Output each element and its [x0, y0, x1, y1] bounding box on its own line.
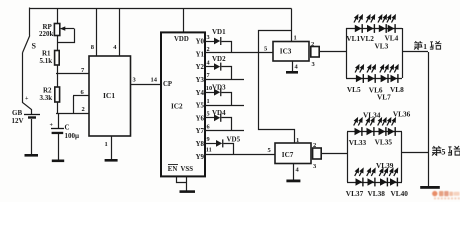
wire group2 output to common rail	[402, 152, 428, 154]
wire capacitor to ground	[58, 134, 60, 160]
svg-text:Y6: Y6	[196, 115, 205, 122]
svg-text:3: 3	[207, 34, 210, 41]
node Y9 pin 11 wire to IC7 pin 5	[205, 146, 275, 154]
svg-text:VL39: VL39	[376, 161, 394, 170]
svg-text:VSS: VSS	[181, 166, 194, 173]
svg-text:1: 1	[105, 141, 108, 148]
svg-text:Y4: Y4	[196, 90, 205, 97]
wire RP to R1	[57, 36, 59, 50]
svg-text:VD5: VD5	[227, 136, 241, 144]
svg-text:VD2: VD2	[212, 55, 226, 63]
battery GB 12V	[12, 96, 41, 125]
svg-text:IC1: IC1	[103, 91, 115, 100]
svg-text:11: 11	[206, 146, 212, 153]
ground (IC7 pin4)	[286, 180, 300, 183]
LED VL7	[380, 65, 389, 83]
watermark logo bottom right	[432, 191, 460, 199]
node Y4 pin 10 stub	[205, 85, 214, 93]
svg-text:VD3: VD3	[212, 84, 226, 92]
wire RP branch from rail	[57, 8, 59, 24]
label route 1 (first channel)	[414, 41, 441, 51]
LED VL2	[366, 15, 375, 33]
svg-text:7: 7	[207, 72, 210, 79]
LED VL37	[355, 169, 364, 187]
svg-text:Y9: Y9	[196, 154, 205, 161]
wire IC2 VDD from rail	[183, 8, 185, 32]
svg-text:VL7: VL7	[377, 92, 391, 101]
label route 5 (fifth channel)	[432, 146, 460, 156]
svg-text:C: C	[65, 124, 70, 132]
svg-text:12V: 12V	[12, 117, 24, 125]
svg-text:GB: GB	[12, 109, 22, 117]
ground (battery)	[25, 154, 39, 157]
wire R1 to node pin7	[57, 65, 59, 87]
svg-text:CP: CP	[163, 81, 172, 88]
wire IC7 pin 4 to ground	[294, 164, 300, 180]
svg-text:6: 6	[207, 123, 210, 130]
svg-text:VL36: VL36	[393, 110, 411, 119]
svg-text:3.3k: 3.3k	[40, 94, 53, 102]
svg-text:Y5: Y5	[196, 103, 205, 110]
svg-text:100µ: 100µ	[65, 132, 80, 140]
labels VL1 VL2 VL3 VL4	[346, 34, 398, 51]
wire IC1 pin 1 to ground	[105, 136, 112, 159]
svg-text:VL35: VL35	[375, 137, 393, 146]
svg-text:EN: EN	[168, 166, 178, 173]
svg-text:+: +	[50, 123, 54, 129]
LED group2 bottom row wire	[347, 182, 402, 184]
ground (IC3 pin4)	[286, 71, 298, 74]
LED VL36	[387, 118, 396, 136]
node Y3 pin 7 wire	[205, 72, 244, 79]
svg-text:VL38: VL38	[368, 189, 386, 198]
LED group1 left rail	[346, 28, 348, 78]
LED VL6	[367, 65, 376, 83]
node Y0 pin 3 stub	[205, 34, 214, 42]
svg-text:IC7: IC7	[282, 151, 294, 159]
wire R2 to node pin2 / junction line	[56, 102, 89, 114]
node Y5 pin 1 wire	[205, 98, 244, 106]
wire node to IC1 pin 7	[56, 67, 89, 74]
wire +12V top rail	[30, 8, 292, 10]
diode VD5	[216, 136, 241, 155]
svg-text:14: 14	[151, 77, 158, 84]
svg-text:5: 5	[441, 147, 445, 156]
wire group1 output to common rail	[402, 51, 428, 53]
capacitor C 100u	[50, 123, 80, 140]
labels VL39 VL37 VL38 VL40	[346, 161, 408, 198]
svg-text:VL1VL2: VL1VL2	[346, 34, 374, 43]
svg-text:5: 5	[207, 111, 210, 118]
node Y1 pin 2 wire to IC3 pin 5	[205, 46, 273, 54]
op-amp timer IC1	[89, 56, 131, 136]
ground (right rail)	[420, 186, 440, 189]
wire node to capacitor	[58, 114, 60, 128]
svg-text:VDD: VDD	[174, 36, 189, 43]
LED VL4	[387, 15, 396, 33]
IC7 output small box pins 2/3	[313, 142, 347, 170]
svg-text:Y8: Y8	[196, 141, 205, 148]
LED VL33	[354, 118, 363, 136]
svg-text:VL37: VL37	[346, 189, 364, 198]
node Y2 pin 4 stub	[205, 59, 214, 66]
svg-text:IC2: IC2	[171, 103, 183, 111]
svg-text:VL5: VL5	[347, 85, 361, 94]
LED VL3	[378, 15, 387, 33]
LED VL39	[379, 169, 388, 187]
svg-text:220k: 220k	[39, 30, 54, 38]
counter IC2	[161, 32, 205, 176]
wire IC1 pin 3 to IC2 CP pin 14	[130, 77, 161, 85]
wire left branch from rail to switch	[29, 8, 31, 36]
svg-text:S: S	[32, 42, 37, 51]
LED group2 right rail	[401, 132, 403, 182]
svg-text:Y3: Y3	[196, 77, 205, 84]
svg-text:1: 1	[296, 137, 299, 144]
LED group1 right rail	[402, 28, 404, 78]
wire +V feed branch to IC3/IC7 pin1	[259, 9, 297, 144]
LED VL38	[367, 169, 376, 187]
LED group1 top row wire	[346, 28, 402, 30]
LED VL8	[390, 65, 399, 83]
resistor R1 5.1k	[40, 50, 60, 65]
ground (capacitor)	[52, 160, 64, 163]
wire IC2 EN/VSS stubs to ground	[177, 177, 187, 191]
labels VL5 VL6 VL7 VL8	[347, 85, 404, 101]
LED group2 top row wire	[347, 131, 402, 133]
svg-text:1: 1	[294, 35, 297, 42]
svg-text:2: 2	[207, 46, 210, 53]
ground (IC1 pin1)	[105, 159, 118, 162]
driver IC3	[273, 42, 309, 62]
svg-text:+: +	[25, 96, 29, 102]
svg-text:1: 1	[207, 98, 210, 105]
svg-text:1: 1	[423, 42, 427, 51]
svg-text:Y1: Y1	[196, 51, 205, 58]
svg-text:Y0: Y0	[196, 39, 205, 46]
svg-text:VL33: VL33	[349, 138, 367, 147]
svg-text:IC3: IC3	[280, 48, 292, 56]
LED VL1	[354, 15, 363, 33]
svg-text:VL8: VL8	[390, 85, 404, 94]
common right rail to ground	[428, 52, 430, 186]
node Y8 pin 9 stub	[205, 136, 216, 143]
wire IC1 pin 8 from rail	[91, 8, 97, 56]
wire IC1 pin 4 from rail	[113, 8, 119, 56]
node Y7 pin 6 wire	[205, 123, 244, 130]
svg-text:2: 2	[82, 106, 85, 113]
svg-text:Y2: Y2	[196, 64, 205, 71]
svg-text:VL3: VL3	[375, 41, 389, 50]
svg-text:5.1k: 5.1k	[40, 57, 53, 65]
svg-text:Y7: Y7	[196, 128, 205, 135]
diode VD4	[212, 109, 232, 131]
diode VD2	[212, 55, 232, 80]
svg-text:VL40: VL40	[391, 189, 409, 198]
node Y6 pin 5 stub	[205, 111, 214, 118]
svg-text:VD4: VD4	[212, 109, 226, 117]
diode VD3	[212, 84, 232, 106]
LED group2 left rail	[347, 132, 349, 182]
wire IC1 pin 6 branch	[73, 89, 89, 114]
wire switch to battery	[23, 53, 32, 115]
labels VL34 VL36 VL33 VL35	[349, 110, 411, 147]
wire battery to ground	[31, 119, 33, 154]
svg-text:VD1: VD1	[212, 28, 226, 36]
IC3 output small box pins 2/3	[311, 41, 346, 68]
resistor R2 3.3k	[40, 87, 60, 103]
LED group1 bottom row wire	[346, 78, 402, 80]
switch S	[23, 36, 37, 53]
wire IC3 pin 4 to ground	[293, 61, 299, 71]
svg-text:2: 2	[313, 142, 316, 149]
LED VL34	[366, 118, 375, 136]
diode VD1	[212, 28, 232, 53]
potentiometer RP 220k	[39, 23, 75, 43]
LED VL35	[378, 118, 387, 136]
svg-text:VL34: VL34	[363, 111, 381, 120]
driver IC7	[275, 137, 311, 164]
ground (IC2 VSS)	[180, 190, 196, 193]
svg-text:2: 2	[311, 41, 314, 48]
svg-text:9: 9	[207, 136, 210, 143]
LED VL5	[355, 65, 364, 83]
LED VL40	[389, 169, 398, 187]
